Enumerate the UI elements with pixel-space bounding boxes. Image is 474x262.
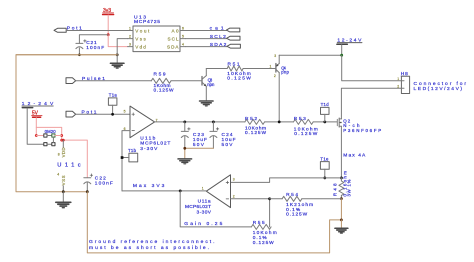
wire Pot1 to U11b + bbox=[76, 113, 130, 115]
capacitor C21 bbox=[76, 40, 104, 55]
wire Pulse1 to R59 bbox=[76, 80, 152, 82]
svg-text:T1e: T1e bbox=[320, 156, 329, 161]
svg-text:50V: 50V bbox=[193, 142, 205, 148]
wire Q2 source to R48 bbox=[340, 126, 342, 178]
resistor R54 bbox=[270, 192, 314, 217]
node - input junction bbox=[268, 197, 271, 200]
svg-text:3-30V: 3-30V bbox=[140, 146, 158, 152]
svg-text:2: 2 bbox=[129, 35, 131, 39]
wire Q2 drain to H8 pin2 bbox=[341, 88, 401, 119]
test point T1d bbox=[321, 102, 330, 122]
svg-text:U11b: U11b bbox=[140, 136, 155, 142]
wire sense top to U11a + bbox=[231, 178, 342, 183]
wire C23 C24 gnd (tan) bbox=[185, 148, 214, 158]
wire 12-24V down to H8 pin1 bbox=[342, 55, 402, 81]
op-amp U11a bbox=[185, 175, 235, 216]
wire sense bottom to gnd (tan) bbox=[340, 199, 342, 220]
wire 3v3 vertical bbox=[107, 15, 109, 35]
svg-text:R51: R51 bbox=[228, 61, 240, 67]
svg-text:0.125W: 0.125W bbox=[286, 211, 307, 217]
node T1d junction bbox=[323, 121, 326, 124]
svg-text:8: 8 bbox=[58, 152, 60, 156]
svg-text:C24: C24 bbox=[222, 132, 233, 138]
global label Pulse1 bbox=[66, 76, 105, 84]
wire 3v3 to Vdd bbox=[108, 35, 127, 47]
svg-text:5: 5 bbox=[124, 110, 126, 114]
capacitor C22 bbox=[84, 174, 113, 192]
svg-text:4: 4 bbox=[57, 173, 59, 177]
svg-text:T1d: T1d bbox=[321, 102, 330, 107]
op-amp dac U13 bbox=[128, 14, 186, 51]
svg-text:U11c: U11c bbox=[57, 163, 81, 169]
svg-text:3: 3 bbox=[129, 43, 131, 47]
wire A0 to ca1 bbox=[186, 30, 227, 32]
wire Pot1 to U13 Vout bbox=[66, 30, 127, 32]
wire 12-24V to jumper bbox=[27, 108, 44, 144]
svg-text:C21: C21 bbox=[86, 40, 97, 46]
wire U11a output bbox=[122, 190, 206, 192]
svg-text:3W 1%: 3W 1% bbox=[346, 179, 351, 196]
svg-text:R52: R52 bbox=[245, 116, 257, 122]
wire Vss to gnd bbox=[117, 39, 127, 63]
svg-text:R54: R54 bbox=[286, 192, 298, 198]
node U13-gnd bbox=[116, 53, 119, 56]
connector H8 bbox=[397, 71, 466, 93]
test point T1b bbox=[122, 148, 138, 162]
capacitor C23 bbox=[181, 122, 207, 148]
node C21-gnd bbox=[78, 54, 81, 57]
resistor R53 bbox=[294, 116, 318, 137]
power symbol 12-24V (top right) bbox=[337, 38, 362, 45]
ground U11c bbox=[56, 202, 71, 207]
wire branch to C21 bbox=[79, 35, 108, 44]
wire R55 up to - input bbox=[231, 199, 270, 227]
global label SCL2 bbox=[210, 34, 240, 40]
wire gnd stem bbox=[340, 220, 342, 228]
svg-text:10uF: 10uF bbox=[193, 137, 207, 143]
svg-text:3: 3 bbox=[274, 54, 276, 58]
svg-text:0.125W: 0.125W bbox=[227, 76, 251, 82]
node 5V jumper bbox=[35, 134, 38, 137]
svg-text:2: 2 bbox=[233, 195, 235, 199]
svg-text:pnp: pnp bbox=[281, 70, 289, 75]
svg-text:1: 1 bbox=[270, 64, 272, 68]
svg-text:1: 1 bbox=[202, 187, 204, 191]
svg-text:10uF: 10uF bbox=[222, 137, 236, 143]
resistor R59 bbox=[151, 72, 174, 94]
wire R52 to node A bbox=[265, 121, 294, 123]
svg-text:2: 2 bbox=[274, 74, 276, 78]
svg-text:Vdd: Vdd bbox=[135, 45, 146, 50]
power symbol 5V bbox=[32, 111, 42, 118]
node feedback tap bbox=[179, 190, 182, 193]
node 3v3 junction bbox=[107, 33, 110, 36]
wire feedback down bbox=[180, 191, 251, 227]
node sense bottom (brown) bbox=[340, 197, 343, 200]
svg-text:MCP4725: MCP4725 bbox=[134, 19, 160, 25]
node vdd corner bbox=[60, 139, 63, 142]
wire SCL to SCL2 bbox=[186, 38, 227, 40]
svg-text:Gain 0.25: Gain 0.25 bbox=[184, 221, 222, 227]
transistor Q2 mosfet bbox=[337, 118, 381, 133]
resistor R55 bbox=[251, 220, 276, 246]
node C24 tap bbox=[212, 121, 215, 124]
resistor R48 sense bbox=[333, 171, 352, 199]
svg-text:must be as short as possible.: must be as short as possible. bbox=[89, 245, 209, 251]
svg-text:5: 5 bbox=[182, 35, 184, 39]
node 12-24V junction bbox=[340, 54, 343, 57]
wire U11b - input bbox=[122, 131, 130, 191]
capacitor C24 bbox=[210, 122, 236, 148]
svg-text:1: 1 bbox=[129, 26, 131, 30]
wire u11c gnd stem bbox=[62, 192, 64, 202]
global label Pot1 (middle) bbox=[66, 109, 97, 117]
wire R53 to Q2 gate bbox=[313, 121, 337, 123]
svg-text:T1a: T1a bbox=[109, 92, 118, 97]
svg-text:0.125W: 0.125W bbox=[245, 130, 266, 136]
svg-text:VDD: VDD bbox=[61, 147, 66, 157]
ground sense bbox=[335, 228, 348, 233]
node T1a junction bbox=[111, 113, 114, 116]
node sense top bbox=[340, 177, 343, 180]
svg-text:3: 3 bbox=[233, 177, 235, 181]
wire 12-24V stem bbox=[341, 45, 343, 55]
svg-text:A0: A0 bbox=[172, 28, 179, 33]
node T1e junction bbox=[323, 177, 326, 180]
wire R51 to Q4 base bbox=[243, 68, 275, 70]
test point T1e bbox=[320, 156, 329, 178]
svg-text:1: 1 bbox=[397, 77, 399, 81]
node T1b junction bbox=[121, 156, 124, 159]
svg-text:ca1: ca1 bbox=[210, 26, 224, 32]
node U11c vdd tap bbox=[62, 139, 65, 142]
wire Q3 collector to R51 bbox=[206, 68, 227, 70]
node C23 tap bbox=[183, 121, 186, 124]
svg-text:Vss: Vss bbox=[135, 37, 146, 42]
wire SDA to SDA2 bbox=[186, 46, 227, 48]
svg-text:SDA2: SDA2 bbox=[210, 42, 227, 48]
svg-text:3-30V: 3-30V bbox=[197, 210, 212, 216]
global label ca1 bbox=[210, 26, 240, 32]
node jumper right bbox=[60, 134, 63, 137]
wire 5V bypass bbox=[36, 127, 61, 140]
svg-text:T1b: T1b bbox=[128, 148, 137, 153]
jumper 0M20 bbox=[36, 129, 61, 137]
svg-text:4: 4 bbox=[182, 43, 184, 47]
node C22 gnd bbox=[86, 190, 89, 193]
node A (Q4 collector) bbox=[278, 121, 281, 124]
ground C23 bbox=[178, 159, 192, 164]
svg-text:2: 2 bbox=[397, 85, 399, 89]
wire Q4 emitter to 12-24V bbox=[279, 54, 342, 56]
svg-text:R53: R53 bbox=[294, 116, 306, 122]
svg-text:Max 3V3: Max 3V3 bbox=[133, 183, 165, 189]
svg-text:SDA: SDA bbox=[167, 45, 179, 50]
svg-text:Ground reference interconnect.: Ground reference interconnect. bbox=[89, 239, 215, 245]
svg-text:VSS: VSS bbox=[61, 175, 66, 185]
wire R54 to sense bottom bbox=[302, 198, 342, 200]
wire U11b output bbox=[155, 121, 245, 123]
ground U13 bbox=[110, 63, 124, 68]
node U11c gnd bbox=[62, 190, 65, 193]
svg-text:R48: R48 bbox=[333, 183, 338, 196]
global label Pot1 (top) bbox=[54, 26, 82, 33]
wire R59 to Q3 base bbox=[171, 80, 202, 82]
svg-text:C23: C23 bbox=[193, 132, 204, 138]
svg-text:6: 6 bbox=[182, 26, 184, 30]
svg-text:P36NF06FP: P36NF06FP bbox=[343, 128, 381, 133]
svg-text:SCL: SCL bbox=[168, 37, 179, 42]
wire to U11c vdd and C22 bbox=[62, 140, 88, 178]
svg-text:0M20: 0M20 bbox=[45, 129, 57, 134]
wire C22 gnd down (tan) bbox=[87, 192, 341, 253]
svg-text:R59: R59 bbox=[154, 72, 166, 78]
svg-text:Max 4A: Max 4A bbox=[343, 153, 366, 159]
svg-text:MCP6L02T: MCP6L02T bbox=[185, 204, 211, 210]
transistor Q3 bbox=[202, 69, 215, 101]
svg-text:50V: 50V bbox=[222, 142, 234, 148]
wire gnd left loop (tan) bbox=[16, 55, 117, 192]
wire gnd bottom (tan) bbox=[16, 54, 117, 56]
power symbol 12-24V (top left) bbox=[22, 101, 54, 108]
jumper lower bbox=[44, 137, 55, 146]
transistor Q4 bbox=[270, 54, 290, 122]
svg-text:0.125W: 0.125W bbox=[294, 131, 317, 137]
svg-text:MCP6L02T: MCP6L02T bbox=[140, 141, 170, 147]
global label SDA2 bbox=[210, 42, 241, 48]
node C23 gnd bbox=[183, 147, 186, 150]
op-amp U11b bbox=[124, 106, 171, 152]
ground Q3 bbox=[200, 101, 214, 106]
svg-text:npn: npn bbox=[207, 82, 215, 87]
svg-text:U11a: U11a bbox=[198, 199, 211, 205]
node gnd interconnect bbox=[340, 219, 343, 222]
resistor R51 bbox=[227, 61, 251, 81]
svg-text:C22: C22 bbox=[95, 175, 106, 181]
op-amp power unit U11c bbox=[57, 140, 81, 192]
svg-text:0.125W: 0.125W bbox=[253, 240, 274, 246]
resistor R52 bbox=[245, 116, 267, 136]
note ground reference bbox=[89, 239, 215, 251]
svg-text:0.125W: 0.125W bbox=[154, 88, 174, 94]
svg-text:R55: R55 bbox=[253, 220, 265, 226]
test point T1a bbox=[108, 92, 117, 114]
wire 5V down bbox=[35, 118, 37, 136]
power symbol 3v3 bbox=[103, 8, 114, 15]
